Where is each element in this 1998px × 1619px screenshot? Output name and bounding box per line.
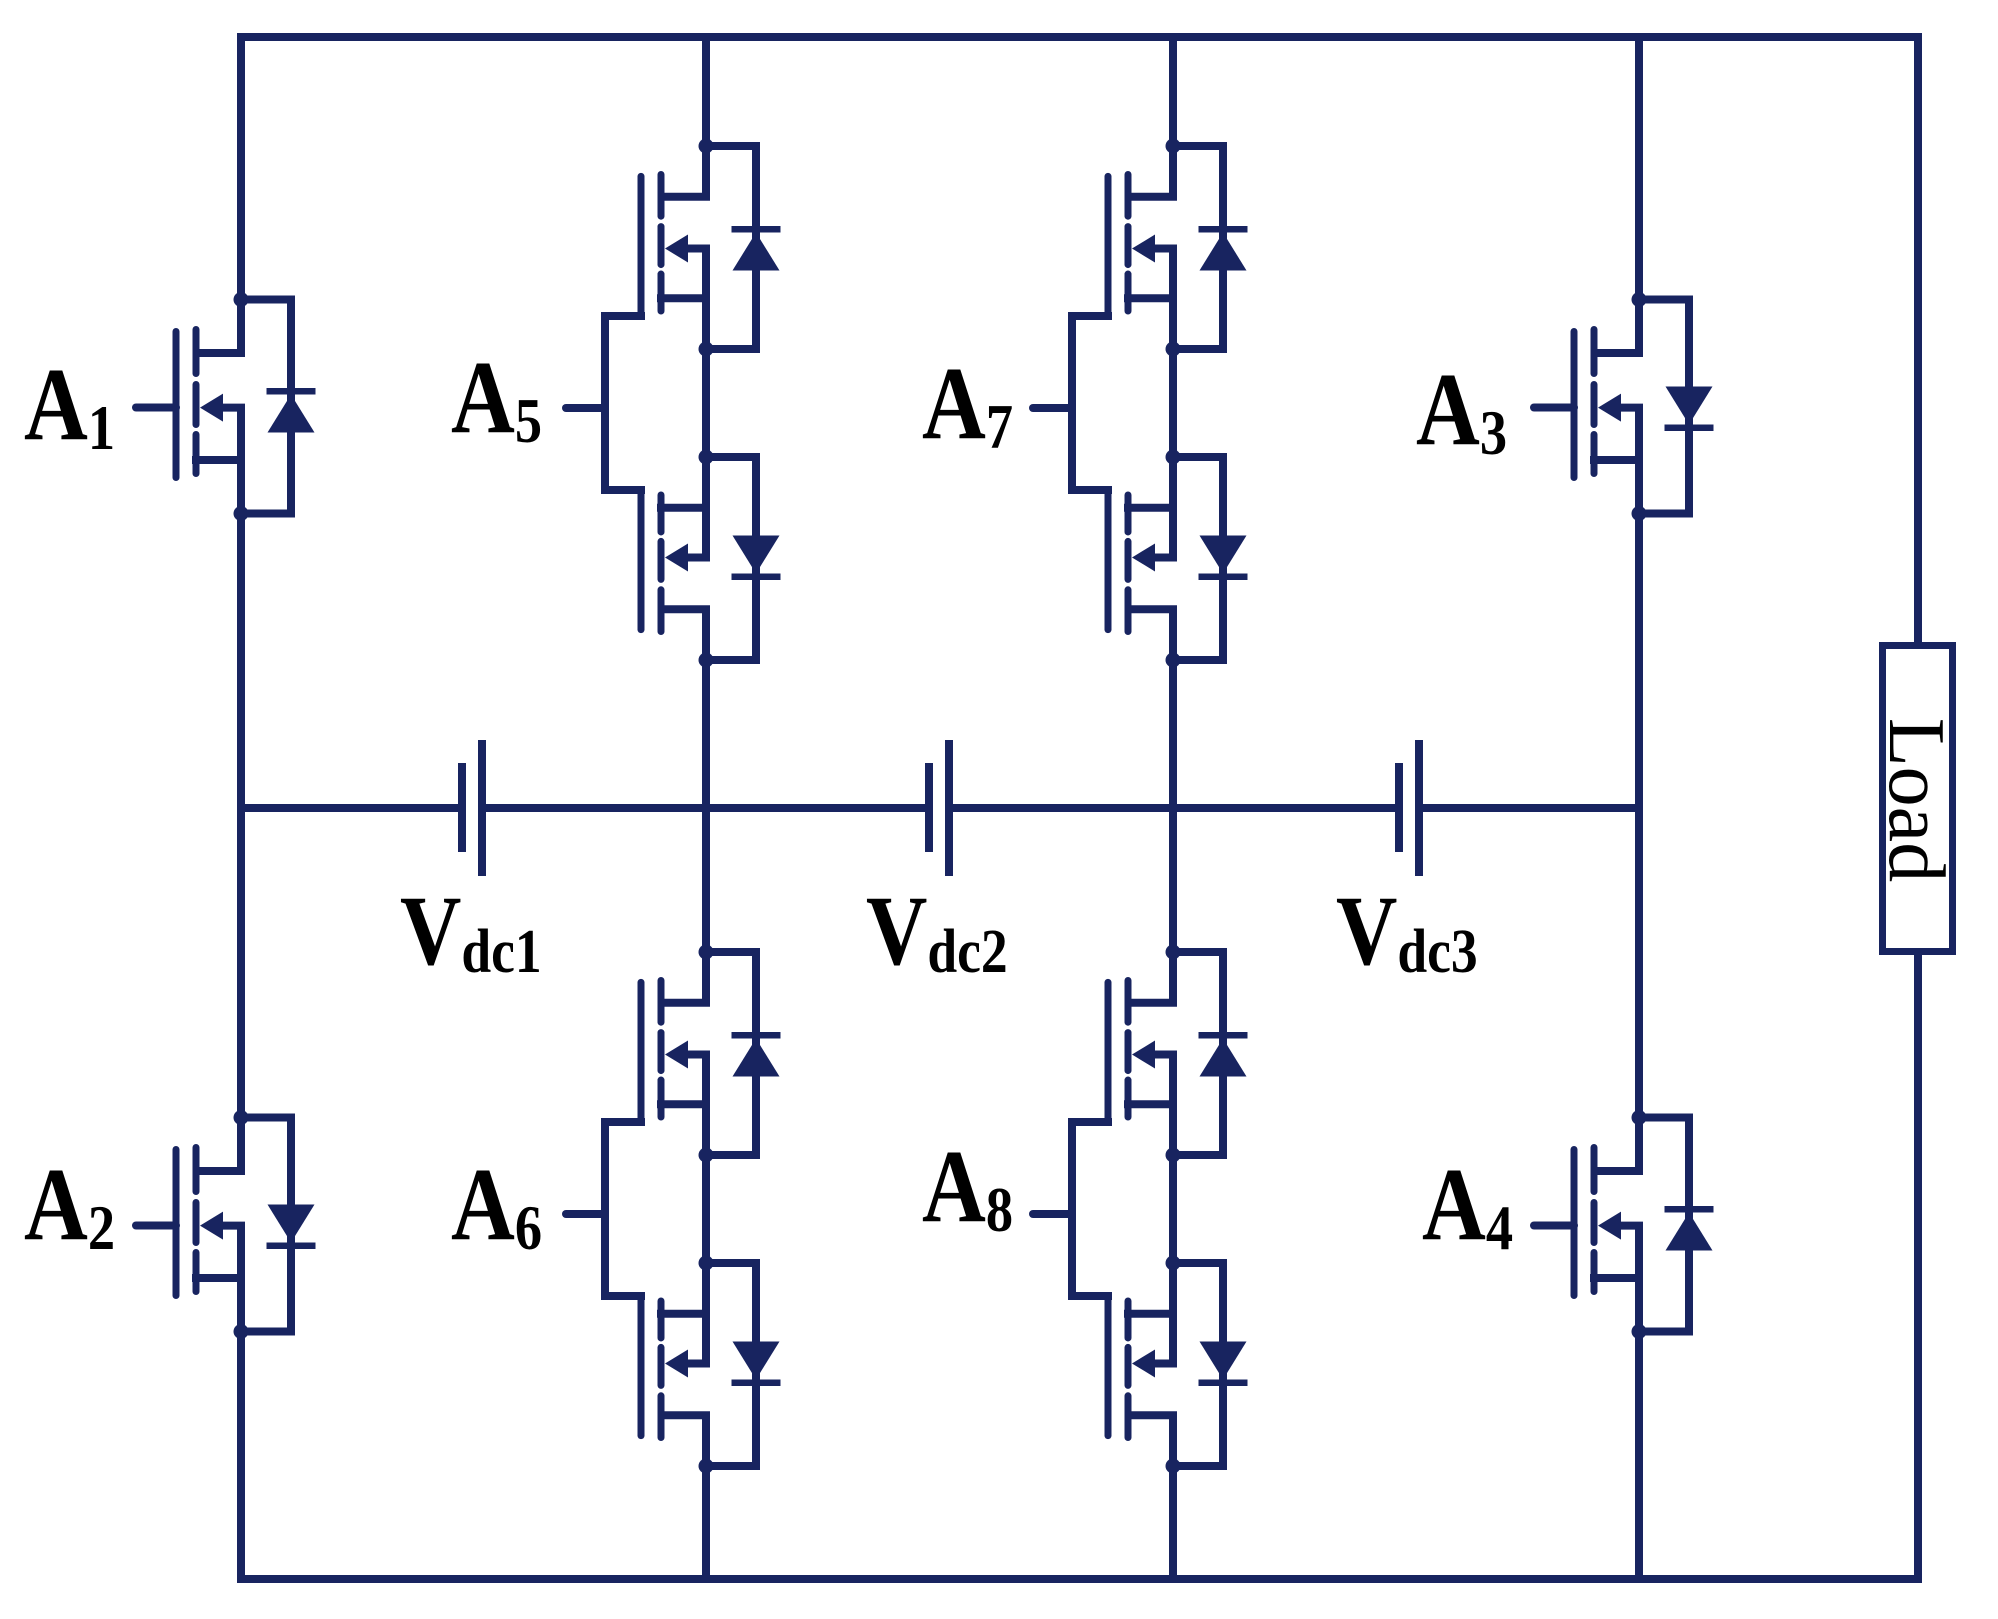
svg-text:Vdc1: Vdc1	[400, 876, 542, 987]
svg-text:A8: A8	[922, 1128, 1013, 1245]
svg-text:Vdc3: Vdc3	[1336, 876, 1478, 987]
svg-text:A4: A4	[1422, 1146, 1513, 1263]
svg-text:Load: Load	[1872, 718, 1960, 882]
svg-text:A3: A3	[1416, 351, 1507, 468]
svg-text:A2: A2	[24, 1146, 115, 1263]
svg-text:A1: A1	[24, 346, 115, 463]
svg-text:A6: A6	[451, 1146, 542, 1263]
svg-text:Vdc2: Vdc2	[866, 876, 1008, 987]
svg-text:A7: A7	[922, 345, 1013, 462]
svg-text:A5: A5	[451, 339, 542, 456]
